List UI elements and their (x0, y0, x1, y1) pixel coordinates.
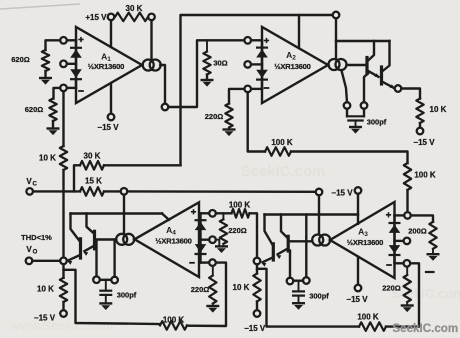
node A4 supply junction (121, 188, 128, 195)
wire junction to -15V node (127, 190, 315, 193)
svg-text:300pf: 300pf (117, 291, 137, 300)
wire 100K mid to 100K vert (291, 152, 408, 164)
svg-text:200Ω: 200Ω (408, 226, 427, 235)
node A2 + input (244, 37, 251, 44)
wire top rail to A2 output (335, 18, 337, 59)
op-amp A1 labels (88, 52, 124, 72)
transistor Q2 TR collector (382, 41, 390, 72)
wire A2 output to Q1 base (347, 64, 367, 66)
wire A4 + stub (201, 212, 210, 214)
wire 10K TR to terminal (419, 123, 421, 128)
resistor 220ohm A2 (205, 104, 233, 128)
output terminal Vo (21, 233, 52, 264)
ground 300pf TR (349, 127, 362, 134)
svg-text:220Ω: 220Ω (205, 112, 224, 121)
capacitor 300pf BM (292, 291, 329, 300)
diode D1 of A4 (195, 220, 207, 230)
svg-text:½XR13600: ½XR13600 (274, 62, 310, 71)
wire 100K vert to A3 + input (406, 190, 408, 212)
wire A4 mid stub (201, 238, 210, 240)
node top rail right terminal (333, 12, 340, 19)
capacitor 300pf TR (347, 116, 386, 126)
wire BM comp link (293, 280, 303, 282)
resistor 220ohm A3 (382, 267, 411, 302)
op-amp A2 labels (274, 50, 310, 71)
wire top feedback rail (181, 15, 333, 165)
svg-text:30Ω: 30Ω (213, 59, 227, 68)
wire TR comp stubs (347, 109, 364, 117)
svg-text:220Ω: 220Ω (382, 284, 401, 293)
wire A4 - stub (201, 261, 210, 263)
op-amp A4 plus mark (191, 209, 196, 214)
resistor 30K top (115, 4, 148, 21)
transistor Q2 BL emitter (67, 255, 80, 265)
resistor 220ohm A4 upper (220, 213, 247, 244)
wire A2 - input down (248, 92, 265, 151)
transistor Q1 TR emitter (368, 71, 380, 78)
op-amp A3 minus mark (386, 264, 392, 266)
transistor Q1 BM base bar (287, 236, 290, 251)
wire 30ohm to ground (206, 75, 208, 80)
power terminal -15V TR (413, 128, 435, 147)
svg-text:620Ω: 620Ω (25, 105, 44, 114)
resistor 620ohm lower (25, 99, 57, 122)
power terminal -15V A1 (97, 114, 119, 132)
node BL comp left (93, 276, 100, 283)
wire 30K lower to top rail (104, 164, 181, 166)
wire BM to 100K feedback (257, 269, 359, 327)
wire BM cap to ground (298, 296, 300, 303)
wire BL comp left up (95, 240, 97, 276)
wire 100K A4 to A3 buffer out (250, 213, 258, 257)
wire BM comp left up (289, 251, 291, 278)
svg-text:SeekIC.com: SeekIC.com (391, 286, 460, 301)
scan artifact top-left streak (0, 4, 80, 9)
node BL comp right (111, 277, 118, 284)
wire A3 - stub (395, 262, 404, 264)
svg-text:−15 V: −15 V (331, 188, 353, 197)
node A1 - input (60, 85, 67, 92)
svg-text:C: C (33, 181, 38, 187)
svg-text:100 K: 100 K (414, 171, 436, 180)
transistor Q1 BM collector (281, 215, 288, 239)
diode D1 of A2 (256, 48, 268, 58)
node A2 mid input (244, 61, 251, 68)
svg-text:SeekIC.com: SeekIC.com (240, 163, 325, 180)
dash mark below 200ohm ground (426, 271, 434, 273)
node BM comp left (287, 278, 294, 285)
ground 300pf BL (99, 303, 112, 310)
watermark (392, 322, 458, 335)
wire A1 output to A2 + input (168, 40, 244, 107)
wire darlington rail BL (71, 214, 170, 220)
node A3 mid input (404, 238, 411, 245)
transistor Q1 BL collector (87, 214, 95, 235)
resistor 100K bottom left (160, 315, 187, 329)
wire A3 bottom supply pin (357, 257, 359, 285)
wire TR emitter to 10K (401, 89, 420, 99)
node BM comp right (303, 277, 310, 284)
current source A4 output (116, 234, 134, 245)
wire BL cap stub (105, 280, 107, 291)
wire 100K br to A3 - input (386, 263, 419, 326)
resistor 100K mid (265, 138, 293, 156)
diode D2 of A2 (256, 70, 268, 80)
wire rail BM right drop (305, 215, 307, 238)
wire -15V junction to A3 output (318, 195, 320, 234)
wire A1 output (160, 65, 165, 104)
svg-text:100 K: 100 K (357, 313, 379, 322)
wire A3 input stack (393, 215, 395, 263)
svg-text:220Ω: 220Ω (191, 285, 210, 294)
wire 100K bl to A4 - input (187, 263, 226, 326)
ground 220ohm A3 (401, 302, 414, 312)
wire 30K terminal to A1 output (150, 20, 152, 59)
transistor Q2 BL base bar (79, 239, 82, 258)
wire to 620ohm upper (46, 40, 61, 50)
wire TR cap to ground (355, 121, 357, 127)
node A1 + input (60, 37, 67, 44)
node A4 + input (209, 210, 216, 217)
wire A2 - input stub (251, 88, 262, 90)
svg-text:−15 V: −15 V (346, 295, 368, 304)
ground 220ohm A4 lower (206, 304, 219, 313)
resistor 100K A4 (229, 201, 251, 218)
resistor 200ohm (408, 222, 436, 249)
node A1 output junction (162, 104, 169, 111)
op-amp A3 triangle (330, 202, 395, 278)
node -15V junction mid (316, 189, 323, 196)
wire BL comp right up (113, 240, 115, 277)
svg-text:10 K: 10 K (233, 283, 250, 292)
svg-text:10 K: 10 K (39, 154, 56, 163)
node Vo junction (60, 258, 67, 265)
wire A1 mid input stub (67, 63, 76, 65)
resistor 30ohm (203, 40, 227, 74)
ground 620ohm upper (39, 78, 52, 85)
node A1 mid input (60, 61, 67, 68)
resistor 10K left (39, 146, 67, 170)
ground 30ohm (201, 80, 214, 87)
wire 200ohm to ground (432, 249, 434, 253)
svg-text:300pf: 300pf (309, 292, 329, 301)
node A2 - input (244, 86, 251, 93)
wire 30K2 branch (74, 165, 80, 191)
node A4 - input (209, 259, 216, 266)
op-amp A1 minus mark (78, 90, 84, 92)
wire A1 input stack (75, 40, 77, 88)
svg-text:10 K: 10 K (37, 285, 54, 294)
ground A4 mid (215, 246, 228, 253)
svg-text:−15 V: −15 V (244, 324, 266, 333)
op-amp A2 plus mark (264, 38, 269, 43)
wire A2 mid input stub (251, 63, 262, 65)
transistor Q1 TR base bar (365, 58, 368, 74)
resistor 100K right vertical (404, 163, 436, 190)
wire TR comp right up (364, 74, 368, 103)
svg-text:−15 V: −15 V (97, 123, 119, 132)
wire BM comp right up (305, 238, 307, 278)
resistor 15K (80, 177, 104, 196)
resistor 10K below Vo (37, 278, 67, 302)
wire V- pin of A3 (357, 194, 359, 224)
svg-text:V: V (26, 177, 32, 186)
op-amp A2 minus mark (264, 87, 270, 89)
svg-text:+15 V: +15 V (85, 13, 107, 22)
wire A4 mid to ground (216, 240, 220, 246)
resistor 10K TR (416, 99, 446, 124)
wire A1 - input down to Vo (62, 91, 64, 257)
svg-text:V: V (26, 245, 32, 254)
wire A4 + input right (216, 212, 232, 214)
wire V+ pin of A1 (110, 20, 112, 47)
ground 220ohm A2 (223, 128, 236, 137)
svg-text:620Ω: 620Ω (11, 55, 30, 64)
transistor Q2 BM base bar (272, 244, 275, 260)
diode D1 of A3 (389, 223, 401, 233)
transistor Q1 TR collector (367, 41, 374, 62)
power terminal -15V A3 top (355, 187, 362, 194)
op-amp A1 triangle (76, 27, 142, 103)
transistor Q1 BL emitter (83, 246, 94, 256)
ground 200ohm (427, 254, 440, 261)
wire A3 + stub (395, 214, 405, 216)
svg-text:30 K: 30 K (126, 4, 143, 13)
resistor 220ohm A4 lower (191, 266, 217, 304)
capacitor 300pf BL (99, 291, 136, 300)
node BM emitter output (254, 258, 261, 265)
svg-text:½XR13600: ½XR13600 (347, 238, 383, 247)
op-amp A3 plus mark (386, 212, 391, 217)
node TR comp right (361, 102, 368, 109)
node A3 - input (404, 260, 411, 267)
wire A2 - to 220ohm (229, 89, 244, 104)
resistor 10K mid (233, 274, 261, 302)
diode D2 of A3 (389, 245, 401, 255)
wire 10K mid to terminal (256, 302, 258, 311)
svg-text:300pf: 300pf (367, 118, 387, 127)
node A3 + input (404, 212, 411, 219)
input terminal Vc (26, 177, 37, 195)
wire to 620ohm lower (54, 88, 61, 99)
wire V+ pin of A2 (298, 15, 300, 48)
svg-text:THD<1%: THD<1% (21, 233, 52, 242)
wire A2 input stack (261, 40, 263, 89)
node TR emitter output (395, 85, 402, 92)
power label -15V mid (331, 188, 353, 197)
wire A3 + input right (411, 215, 433, 221)
wire Vo to junction (32, 260, 60, 262)
svg-text:www.SeekIC.com: www.SeekIC.com (9, 319, 113, 333)
transistor Q2 TR base bar (380, 67, 383, 84)
resistor 30K lower (80, 152, 104, 170)
current source A3 output (312, 235, 330, 246)
node A4 mid input (209, 236, 216, 243)
svg-text:O: O (33, 250, 38, 256)
wire BM emitter to 10K (256, 264, 258, 273)
resistor 620ohm upper (11, 50, 49, 71)
wire V- pin of A1 (110, 84, 112, 114)
wire TR comp left up (342, 71, 348, 103)
svg-text:220Ω: 220Ω (228, 226, 247, 235)
node TR comp left (344, 102, 351, 109)
wire 620ohm lower to ground (52, 121, 54, 128)
wire A4 supply drop (123, 195, 125, 234)
wire BL cap to ground (105, 295, 107, 303)
transistor Q2 BM emitter (261, 257, 273, 266)
op-amp A3 labels (347, 227, 383, 248)
svg-text:SeekIC.com: SeekIC.com (392, 322, 458, 335)
wire BL comp link (100, 279, 112, 281)
svg-text:½XR13600: ½XR13600 (88, 62, 124, 71)
svg-text:15 K: 15 K (85, 177, 102, 186)
wire darlington rail BM (265, 213, 359, 215)
ground 620ohm lower (47, 129, 60, 136)
op-amp A4 triangle (135, 202, 200, 277)
wire BM cap stub (298, 281, 300, 291)
wire A4 input stack (199, 213, 201, 262)
svg-text:−15 V: −15 V (413, 138, 435, 147)
wire Vo junction to 10K below (62, 264, 64, 278)
wire rail BL left drop (71, 214, 80, 242)
power terminal -15V A3 bottom (346, 285, 368, 304)
wire 10K to -15V terminal (62, 302, 64, 310)
op-amp A4 labels (155, 225, 191, 246)
diode D2 of A1 (70, 69, 82, 79)
wire A1 - input stub (67, 87, 76, 89)
op-amp A1 plus mark (78, 37, 83, 42)
wire Q1 BM base to A3 output (288, 240, 312, 242)
wire A3 mid stub (395, 240, 404, 242)
diode D2 of A4 (195, 244, 207, 254)
svg-text:10 K: 10 K (430, 105, 447, 114)
svg-text:−15 V: −15 V (34, 314, 56, 323)
wire 15K to junction (104, 190, 121, 192)
svg-text:100 K: 100 K (271, 138, 293, 147)
op-amp A2 triangle (262, 27, 328, 103)
op-amp A4 minus mark (189, 262, 195, 264)
svg-text:½XR13600: ½XR13600 (155, 237, 191, 246)
diode D1 of A1 (70, 48, 82, 58)
ground 300pf BM (292, 303, 305, 310)
wire Vo to 100K feedback (64, 270, 161, 324)
resistor 100K bottom right (357, 313, 386, 331)
wire A2 + input stub (251, 39, 262, 41)
current source A2 output (329, 59, 347, 70)
transistor Q1 BM emitter (276, 249, 288, 260)
node 30K right terminal (148, 14, 155, 21)
wire Vc rail (33, 190, 80, 192)
transistor Q1 BL base bar (93, 231, 96, 249)
wire 220ohm A4 to ground (222, 244, 224, 246)
wire rail BM left drop (265, 215, 273, 246)
power terminal -15V mid bottom (244, 310, 266, 333)
wire A1 + input stub (67, 39, 76, 41)
wire Q1 BL base to A4 output (95, 238, 117, 240)
svg-text:30 K: 30 K (84, 152, 101, 161)
current source A1 output (143, 60, 161, 71)
power terminal -15V bottom left (34, 310, 67, 322)
wire 620ohm upper to ground (44, 71, 46, 77)
transistor Q2 TR emitter (382, 82, 395, 89)
wire darlington rail TR (336, 40, 390, 42)
power terminal +15V (85, 13, 114, 22)
